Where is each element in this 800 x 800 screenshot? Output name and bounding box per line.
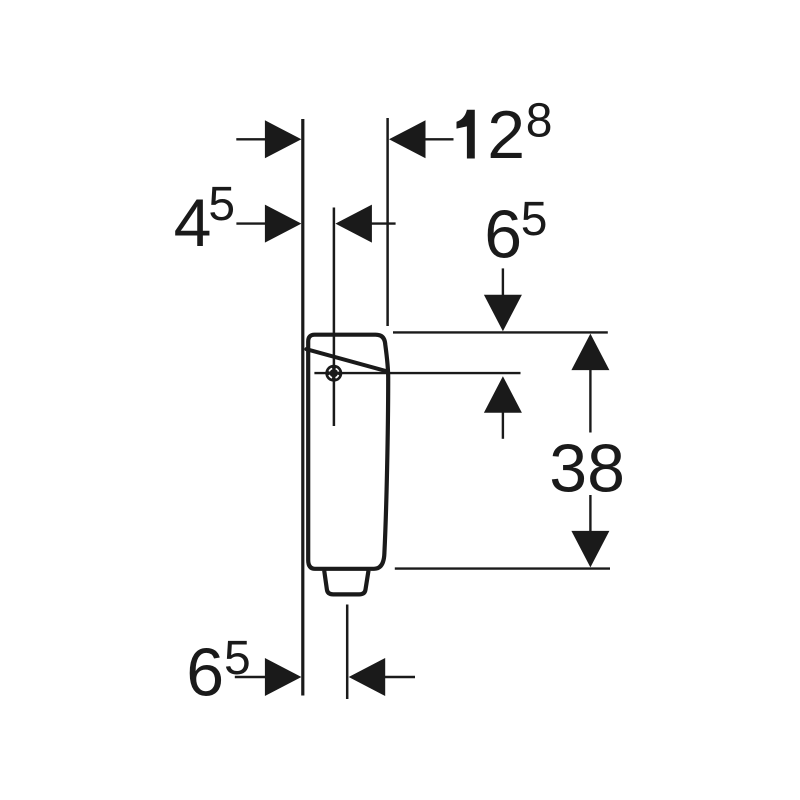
outlet center extension line	[346, 605, 349, 700]
outlet spigot	[324, 571, 368, 595]
valve center horizontal line	[314, 372, 520, 374]
dim 12.8 left tail	[236, 138, 266, 140]
dim 4.5 left arrow	[265, 205, 302, 243]
label 12 digit 1	[457, 110, 475, 159]
cistern top extension line	[393, 331, 608, 333]
dim 6.5 upper down arrow	[484, 295, 522, 332]
dim 38 down arrow	[571, 531, 609, 568]
dim 38 lower stem	[589, 495, 591, 532]
svg-text:5: 5	[521, 193, 548, 246]
svg-text:6: 6	[186, 635, 224, 711]
dim 12.8 left arrow	[265, 120, 302, 158]
dim 4.5 right arrow	[335, 205, 372, 243]
cistern body outline	[308, 335, 388, 569]
svg-text:2: 2	[487, 97, 525, 173]
dim 4.5 right tail	[371, 222, 396, 224]
svg-text:5: 5	[224, 632, 251, 685]
valve center extension line	[333, 208, 336, 427]
dim 38 up arrow	[571, 334, 609, 371]
flush valve disc	[325, 365, 342, 382]
dim 6.5 bottom right tail	[385, 676, 416, 678]
dim 38 upper stem	[589, 369, 591, 433]
dim 6.5 upper up arrow	[484, 376, 522, 413]
dim 12.8 right arrow	[389, 120, 426, 158]
dim 6.5 upper lower stem	[502, 412, 504, 439]
cistern bottom extension line	[395, 567, 610, 569]
svg-text:4: 4	[174, 185, 212, 261]
dim 6.5 bottom left arrow	[265, 658, 302, 696]
dim 6.5 bottom right arrow	[349, 658, 386, 696]
right extension line 12.8	[386, 118, 389, 326]
dim 12.8 right tail	[425, 138, 454, 140]
dim 6.5 bottom left tail	[235, 676, 266, 678]
svg-text:38: 38	[549, 430, 625, 506]
wall reference line	[301, 119, 304, 696]
svg-text:5: 5	[208, 178, 235, 231]
svg-text:8: 8	[526, 95, 553, 148]
dim 6.5 upper stem	[502, 268, 504, 296]
cistern lid seam diagonal	[306, 349, 387, 371]
svg-text:6: 6	[484, 197, 522, 273]
dim 4.5 left tail	[236, 222, 266, 224]
flush valve inner dashed circle	[329, 368, 339, 378]
